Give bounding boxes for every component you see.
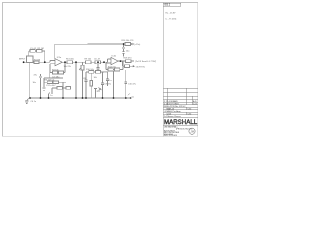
svg-text:C1 .02: C1 .02: [30, 48, 37, 50]
svg-text:R2 1M: R2 1M: [38, 48, 44, 50]
svg-text:R14 10k: R14 10k: [108, 67, 117, 69]
svg-text:10k 22k: 10k 22k: [64, 66, 72, 68]
svg-text:Ic - 77.4Vdc: Ic - 77.4Vdc: [166, 19, 177, 21]
svg-text:R10 10k: R10 10k: [86, 69, 95, 71]
svg-text:R1 1M: R1 1M: [34, 59, 40, 61]
svg-text:(To FX R): (To FX R): [136, 66, 145, 68]
svg-text:R4 10k: R4 10k: [52, 69, 60, 71]
svg-text:C3 1u 4k7: C3 1u 4k7: [46, 85, 56, 87]
svg-text:FILE: 52-13.GRF: FILE: 52-13.GRF: [164, 135, 177, 137]
svg-text:(To FX Send L 0.775V): (To FX Send L 0.775V): [135, 61, 156, 63]
svg-text:R16 10k C11: R16 10k C11: [122, 40, 135, 42]
svg-text:R5 100k: R5 100k: [66, 59, 75, 61]
svg-text:1:4 Stereo Chorus: 1:4 Stereo Chorus: [164, 115, 181, 118]
svg-text:C.G: C.G: [193, 104, 197, 106]
svg-text:JM: JM: [190, 129, 194, 133]
svg-text:R9 10k: R9 10k: [85, 59, 93, 61]
svg-text:C/G: C/G: [188, 109, 192, 111]
svg-text:(+15v): (+15v): [134, 44, 140, 46]
svg-text:Ra - 25.8V: Ra - 25.8V: [166, 12, 177, 14]
svg-text:C3 .68u: C3 .68u: [52, 76, 60, 78]
svg-text:ISS.2: ISS.2: [164, 4, 171, 7]
svg-text:C/G: C/G: [188, 114, 192, 116]
svg-text:C10 47u: C10 47u: [128, 84, 137, 86]
svg-text:C9 47u: C9 47u: [104, 83, 112, 85]
svg-text:C6 .47: C6 .47: [94, 59, 101, 61]
svg-text:R18 470: R18 470: [124, 58, 133, 60]
svg-text:C4 1u: C4 1u: [31, 101, 37, 103]
svg-text:R6 2k7 C4: R6 2k7 C4: [45, 79, 56, 81]
svg-text:INPUT: INPUT: [19, 59, 26, 61]
svg-text:MARSHALL: MARSHALL: [164, 119, 198, 126]
